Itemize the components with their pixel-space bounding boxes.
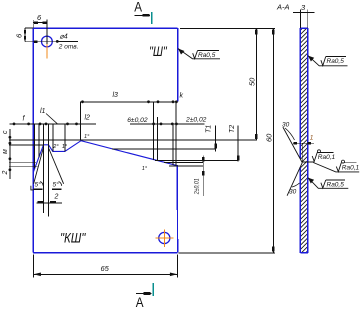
svg-text:2±0,01: 2±0,01 — [194, 178, 201, 195]
left vertical dim line — [9, 129, 11, 179]
svg-text:6±0,02: 6±0,02 — [127, 117, 148, 124]
hole leader line — [57, 40, 78, 42]
T1 dim — [215, 126, 217, 152]
right ext top y28 — [180, 28, 275, 30]
Ra0.5 bottom — [308, 178, 348, 189]
plate outline — [33, 28, 177, 252]
knife flank left — [34, 149, 44, 184]
svg-text:30: 30 — [282, 122, 290, 129]
Ra0.5 check symbol — [193, 51, 198, 59]
svg-text:1°: 1° — [84, 134, 90, 140]
dim 2 knife: line — [36, 202, 62, 204]
l3 dim line — [81, 101, 178, 103]
svg-text:1°: 1° — [62, 144, 68, 150]
svg-text:c: c — [2, 130, 9, 134]
svg-text:1°: 1° — [142, 166, 148, 172]
svg-text:Ra0,1: Ra0,1 — [318, 154, 336, 161]
bottom dim 65: ext lines — [32, 255, 34, 278]
svg-text:Ra0,5: Ra0,5 — [327, 182, 345, 189]
svg-text:м: м — [2, 149, 9, 154]
T2 bottom line — [155, 160, 238, 162]
knife flank right — [49, 149, 64, 184]
svg-text:"Ш": "Ш" — [149, 43, 168, 59]
right cluster verticals — [153, 102, 155, 160]
Ra0.1 first — [302, 161, 314, 163]
hole 1 centerline vertical black — [46, 20, 48, 44]
dim 6 left: arrows — [24, 30, 26, 34]
svg-text:5°: 5° — [53, 181, 60, 189]
2+-0.01 dim vertical — [202, 156, 204, 197]
surface finish Ra0.5 top right leader — [178, 49, 220, 59]
hole 1 horizontal extension line — [25, 41, 58, 43]
svg-text:2: 2 — [2, 171, 9, 176]
left pair lines — [9, 161, 36, 163]
chain piece1 dots — [13, 123, 16, 126]
dim 6 top: line — [33, 22, 47, 24]
section arrow A bottom — [136, 293, 151, 295]
svg-text:60: 60 — [264, 133, 273, 142]
hole 2 crosshair — [163, 229, 165, 247]
svg-text:l2: l2 — [85, 115, 91, 122]
notch vertical extension — [301, 143, 303, 162]
2+-0.01 pair lines — [164, 161, 204, 163]
svg-text:Т2: Т2 — [229, 125, 236, 133]
hole 1 centerline orange — [46, 44, 48, 58]
svg-text:2: 2 — [54, 194, 59, 201]
dim 50 line — [255, 28, 257, 140]
line y144.9 to knife — [9, 144, 43, 146]
l3 left vertical to peak — [80, 102, 82, 141]
svg-text:2°: 2° — [52, 144, 59, 150]
svg-text:k: k — [180, 93, 184, 100]
section Ra0.5 top leader — [308, 56, 348, 66]
svg-text:А: А — [134, 0, 142, 14]
svg-text:Т1: Т1 — [206, 125, 213, 133]
T2 dim — [237, 126, 239, 162]
notch dim 1 line — [293, 142, 314, 144]
section bar hatching — [290, 6, 316, 281]
profile edge (blue polyline) — [33, 141, 177, 173]
T1 bottom line — [112, 148, 216, 150]
long horizontal line y140 — [9, 139, 257, 141]
hole 1 circle — [42, 36, 53, 47]
dim 6 left: top ext — [25, 27, 33, 29]
svg-text:А: А — [136, 294, 144, 310]
section arrow A top — [134, 14, 150, 16]
dim 6 top: arrows — [34, 21, 38, 23]
svg-text:l1: l1 — [40, 108, 46, 115]
small slope verticals — [52, 124, 54, 151]
dim 6 top: left ext — [32, 20, 34, 28]
hole 2 circle — [159, 232, 170, 243]
svg-text:"КШ": "КШ" — [60, 229, 86, 245]
dim 6 left: line — [24, 28, 26, 42]
svg-text:2±0,02: 2±0,02 — [185, 117, 207, 124]
svg-text:Ra0,1: Ra0,1 — [342, 165, 360, 172]
corner bracket — [31, 186, 34, 190]
svg-text:30: 30 — [289, 189, 297, 196]
svg-text:2 отв.: 2 отв. — [58, 44, 79, 51]
svg-text:65: 65 — [101, 264, 110, 273]
5deg hook right — [59, 182, 62, 186]
chain piece2 dots — [152, 123, 155, 126]
Ra0.1 second — [313, 163, 359, 172]
dim 65 line — [33, 273, 177, 275]
chain dim line piece 2 — [130, 123, 204, 125]
chain dim line piece 1 — [10, 123, 96, 125]
svg-text:⌀4: ⌀4 — [60, 34, 68, 41]
5deg hook left — [40, 182, 43, 186]
svg-text:A-A: A-A — [276, 2, 290, 11]
svg-text:1: 1 — [310, 135, 314, 142]
svg-text:l3: l3 — [113, 92, 119, 99]
small left verticals — [34, 124, 36, 169]
section bar outline — [300, 28, 308, 253]
notch flank lines extended — [283, 127, 302, 163]
dim 60 line — [272, 28, 274, 253]
angle arc ticks bold — [34, 188, 43, 190]
svg-text:50: 50 — [248, 77, 257, 86]
knife vertical extensions — [43, 124, 45, 213]
right ext bottom y252 — [179, 252, 275, 254]
svg-text:Ra0,5: Ra0,5 — [198, 52, 216, 59]
svg-text:Ra0,5: Ra0,5 — [327, 58, 345, 65]
